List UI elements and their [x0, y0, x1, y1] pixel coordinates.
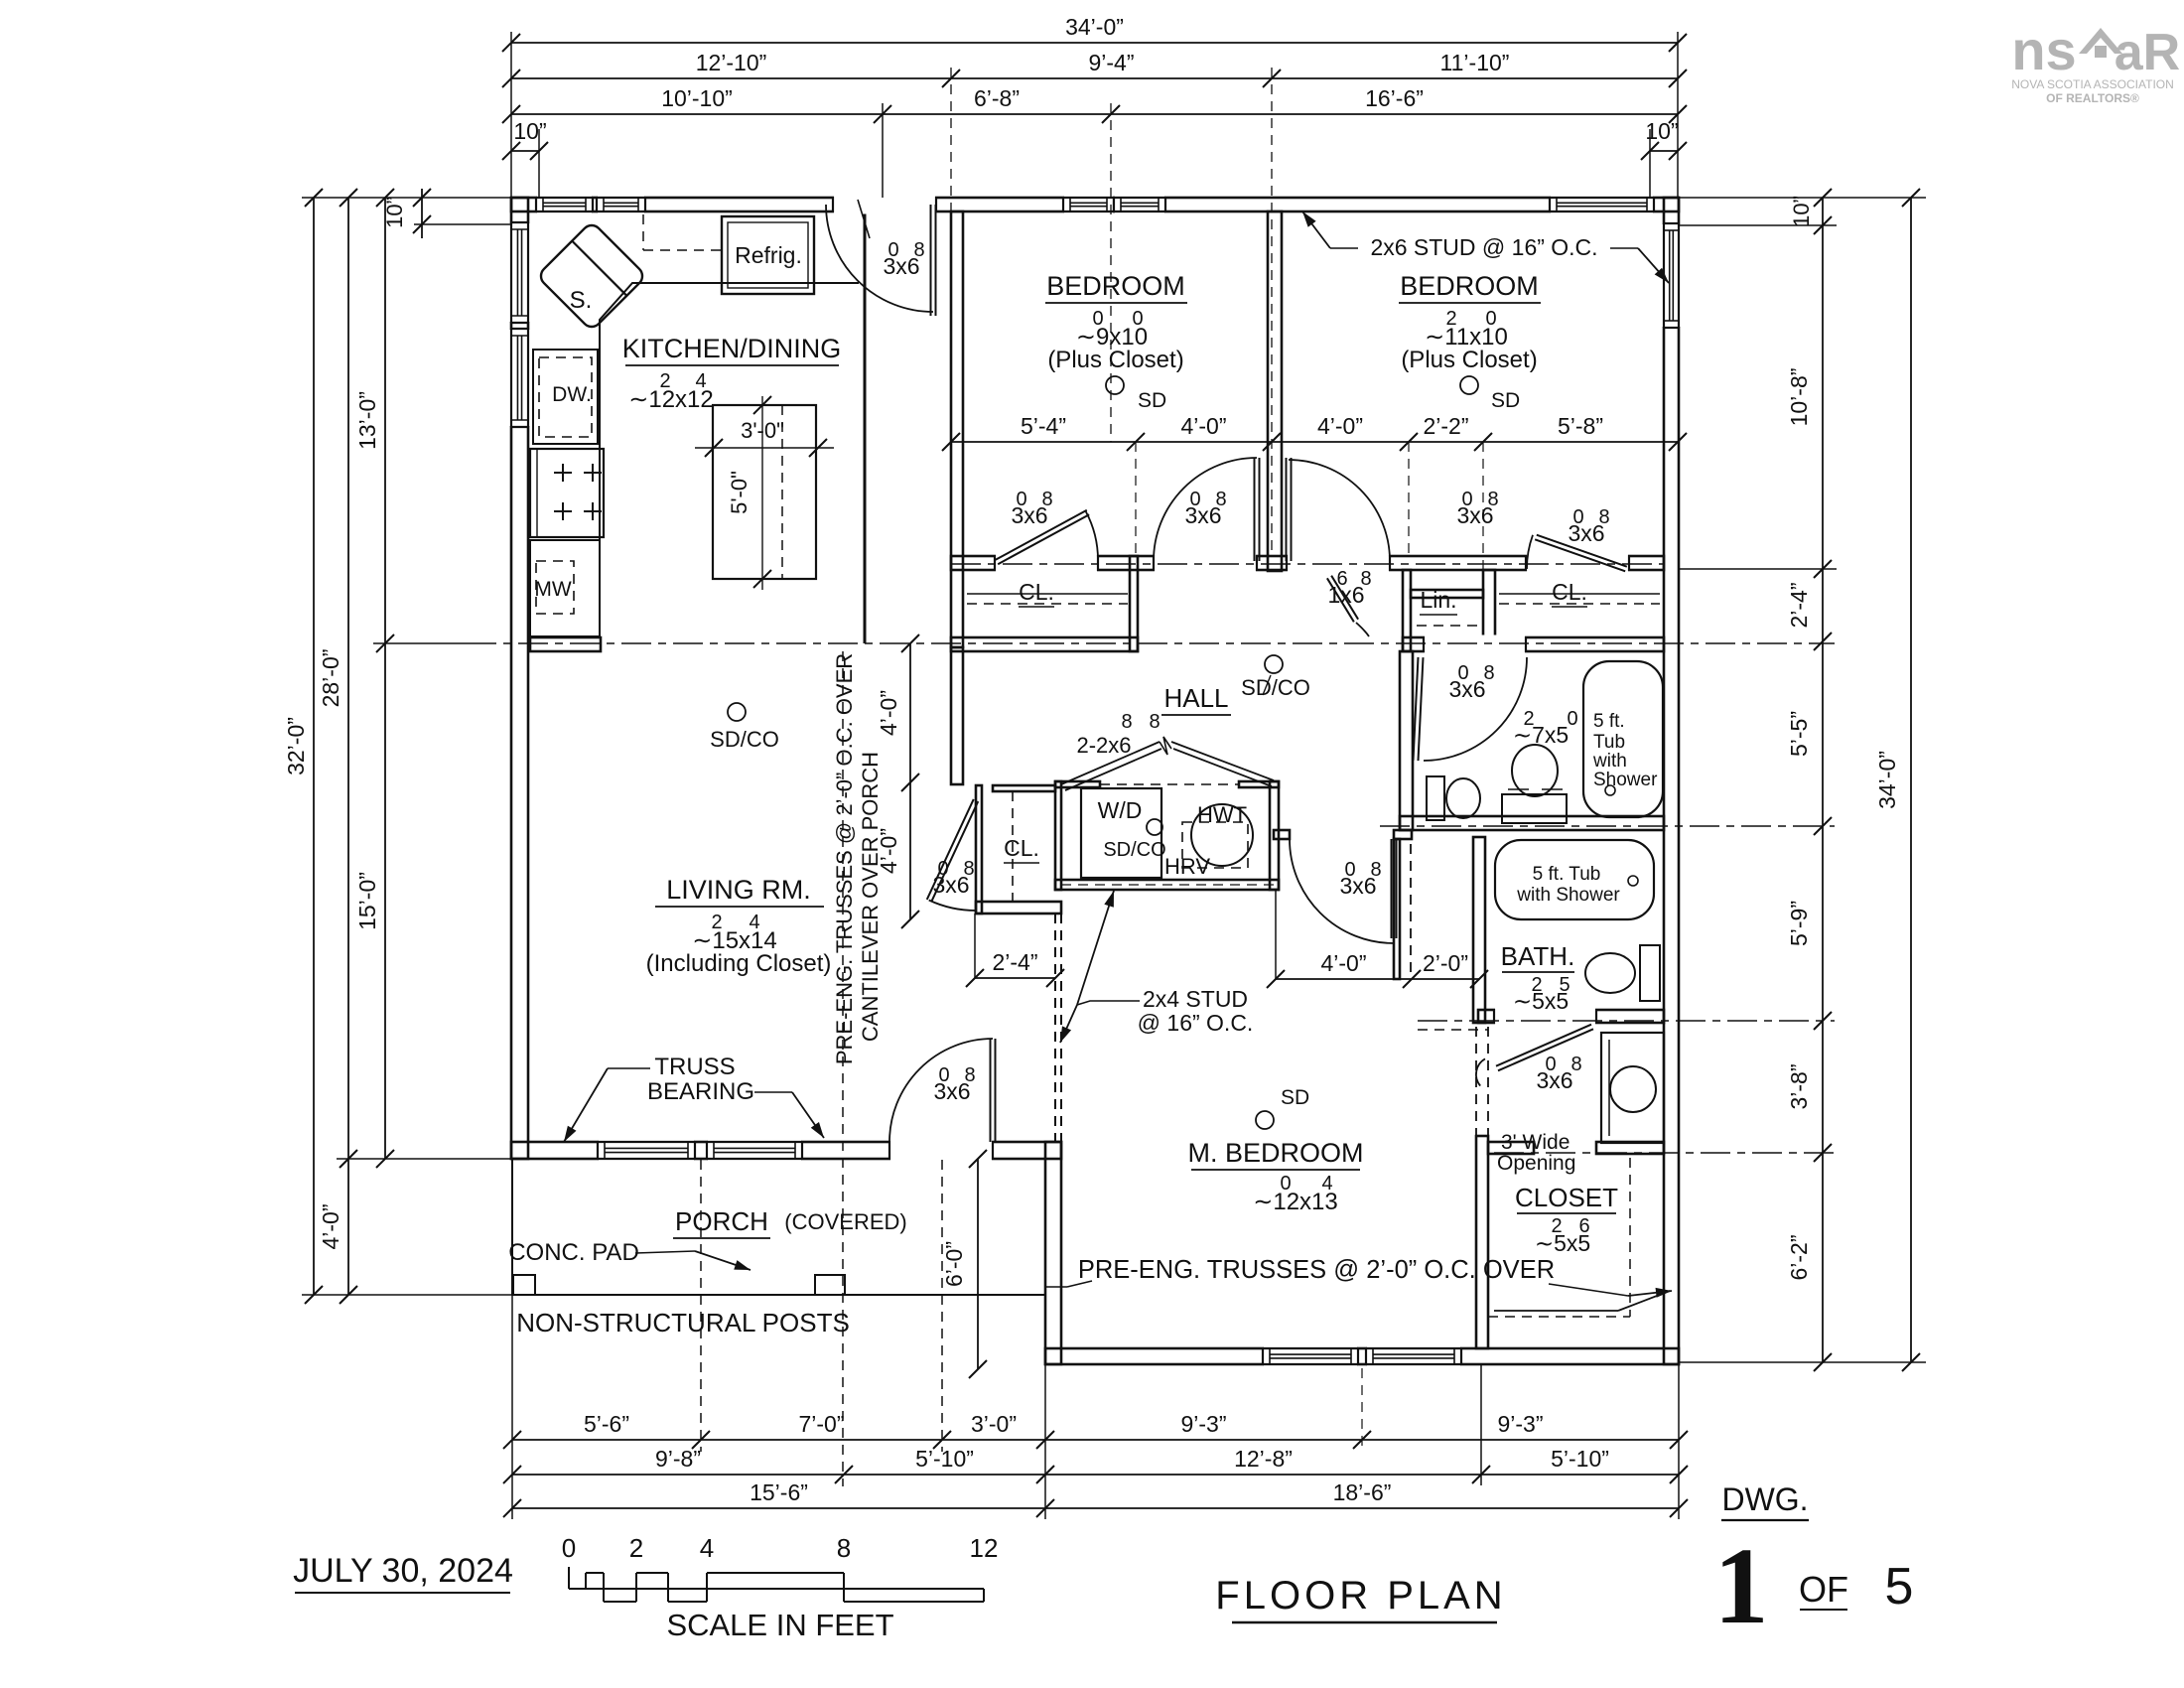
svg-text:ns: ns	[2011, 19, 2076, 81]
concrete pad right	[815, 1275, 845, 1295]
svg-text:4’-0”: 4’-0”	[1317, 413, 1363, 439]
svg-text:∼5x5: ∼5x5	[1513, 988, 1569, 1014]
closet band centerline	[951, 563, 1664, 565]
svg-text:NOVA SCOTIA ASSOCIATION: NOVA SCOTIA ASSOCIATION	[2011, 77, 2174, 91]
svg-text:3’-8”: 3’-8”	[1786, 1063, 1812, 1109]
svg-text:8: 8	[837, 1533, 851, 1563]
bath split centerline	[1380, 825, 1835, 827]
hall 4-0 / 2-0 dims	[1276, 978, 1479, 980]
kitchen counter edge	[600, 283, 859, 636]
svg-text:1x6: 1x6	[1327, 582, 1364, 608]
svg-text:BATH.: BATH.	[1501, 941, 1575, 971]
svg-text:0: 0	[562, 1533, 576, 1563]
svg-text:CANTILEVER OVER PORCH: CANTILEVER OVER PORCH	[858, 752, 883, 1042]
svg-text:12’-8”: 12’-8”	[1234, 1446, 1293, 1472]
svg-text:(Plus Closet): (Plus Closet)	[1401, 347, 1537, 373]
bottom exterior wall	[1045, 1348, 1679, 1364]
svg-text:JULY 30, 2024: JULY 30, 2024	[293, 1552, 513, 1590]
svg-text:18’-6”: 18’-6”	[1333, 1479, 1392, 1505]
bedroom closet rod dashes	[967, 593, 1128, 595]
cantilever line (vertical dashed)	[842, 651, 844, 1486]
bath2 west wall	[1473, 837, 1485, 1023]
HWT	[1191, 804, 1253, 866]
svg-text:BEDROOM: BEDROOM	[1400, 271, 1539, 301]
svg-text:9’-3”: 9’-3”	[1497, 1411, 1543, 1437]
svg-text:3x6: 3x6	[1011, 502, 1047, 528]
svg-text:12’-10”: 12’-10”	[696, 50, 767, 75]
svg-text:HRV: HRV	[1164, 854, 1210, 879]
svg-text:OF: OF	[1799, 1569, 1848, 1610]
svg-text:5’-4”: 5’-4”	[1021, 413, 1066, 439]
svg-text:2’-2”: 2’-2”	[1423, 413, 1468, 439]
dishwasher DW	[533, 350, 598, 444]
svg-text:3'-0": 3'-0"	[741, 418, 784, 443]
microwave MW	[530, 540, 600, 636]
svg-text:34’-0”: 34’-0”	[1874, 751, 1900, 809]
window bedroom1 top	[1064, 196, 1113, 214]
closet rod/shelf	[1629, 1158, 1631, 1317]
lin closet inner	[1417, 625, 1477, 627]
left dim chain	[313, 198, 315, 1295]
svg-text:15’-0”: 15’-0”	[354, 872, 380, 930]
svg-text:∼7x5: ∼7x5	[1513, 722, 1569, 748]
svg-text:Opening: Opening	[1497, 1152, 1575, 1175]
top dims	[511, 42, 1678, 44]
top extension lines	[510, 32, 512, 198]
master bedroom door	[1391, 839, 1393, 938]
svg-text:W/D: W/D	[1098, 797, 1143, 823]
svg-text:2’-4”: 2’-4”	[1786, 582, 1812, 628]
svg-text:SD/CO: SD/CO	[1103, 839, 1165, 861]
svg-text:12: 12	[970, 1533, 999, 1563]
svg-text:5'-0": 5'-0"	[727, 471, 751, 514]
svg-text:8: 8	[1149, 711, 1160, 733]
island dims	[761, 396, 763, 590]
svg-text:3x6: 3x6	[932, 872, 969, 898]
kitchen counter-end wall	[530, 637, 601, 651]
porch dim extension dashed	[941, 1160, 943, 1452]
svg-text:9’-4”: 9’-4”	[1088, 50, 1134, 75]
hall 2-4 dim	[975, 977, 1055, 979]
svg-text:MW: MW	[534, 578, 571, 601]
2x4 stud wall living/master (dashed)	[1054, 914, 1056, 1142]
laundry SD/CO	[1147, 819, 1162, 835]
svg-text:∼5x5: ∼5x5	[1535, 1230, 1590, 1256]
svg-text:Tub: Tub	[1593, 732, 1625, 753]
svg-text:4’-0”: 4’-0”	[876, 690, 901, 736]
svg-text:S.: S.	[570, 287, 593, 314]
svg-text:SD/CO: SD/CO	[710, 727, 779, 752]
front door opening (porch)	[890, 1140, 992, 1162]
svg-text:NON-STRUCTURAL POSTS: NON-STRUCTURAL POSTS	[516, 1308, 850, 1337]
bottom dim rows	[512, 1439, 1679, 1441]
svg-text:CLOSET: CLOSET	[1515, 1183, 1618, 1212]
svg-text:10”: 10”	[1789, 196, 1814, 227]
living closet door (angled)	[931, 801, 978, 902]
vanity/closet divider	[1488, 1142, 1534, 1154]
svg-text:(Including Closet): (Including Closet)	[646, 950, 832, 977]
bath1 door	[1425, 635, 1525, 654]
svg-text:Refrig.: Refrig.	[735, 242, 802, 268]
interior wall: closet band bottom / hall north	[951, 637, 1138, 651]
svg-text:3x6: 3x6	[883, 253, 919, 279]
svg-text:5: 5	[1885, 1558, 1914, 1616]
truss bearing centerline	[467, 642, 1835, 644]
closet zone centerline	[1494, 1152, 1835, 1154]
svg-text:5 ft.: 5 ft.	[1593, 711, 1625, 732]
svg-text:BEDROOM: BEDROOM	[1046, 271, 1185, 301]
bath1 pedestal sink	[1512, 745, 1558, 796]
svg-text:16’-6”: 16’-6”	[1365, 85, 1424, 111]
corner sink S.	[537, 221, 646, 331]
kitchen island	[713, 405, 816, 579]
svg-text:3x6: 3x6	[1568, 520, 1604, 546]
svg-text:3x6: 3x6	[933, 1078, 970, 1104]
svg-text:(Plus Closet): (Plus Closet)	[1047, 347, 1183, 373]
svg-text:3x6: 3x6	[1184, 502, 1221, 528]
bottom extensions	[511, 1295, 513, 1519]
window kitchen top 1	[537, 196, 592, 214]
svg-text:13’-0”: 13’-0”	[354, 391, 380, 450]
svg-text:LIVING RM.: LIVING RM.	[666, 875, 811, 905]
hall vestibule walls	[1274, 830, 1290, 839]
svg-text:PRE-ENG. TRUSSES @ 2’-0” O.C.: PRE-ENG. TRUSSES @ 2’-0” O.C. OVER	[832, 653, 857, 1064]
entry door opening (top)	[834, 196, 935, 214]
bedroom1 door opening	[996, 554, 1097, 573]
svg-text:10’-10”: 10’-10”	[661, 85, 733, 111]
svg-text:DW.: DW.	[552, 383, 592, 406]
svg-text:aR: aR	[2115, 24, 2180, 81]
svg-text:PORCH: PORCH	[675, 1206, 768, 1236]
svg-text:1: 1	[1714, 1525, 1769, 1646]
svg-text:M. BEDROOM: M. BEDROOM	[1187, 1138, 1363, 1168]
svg-text:TRUSS: TRUSS	[654, 1054, 735, 1080]
svg-text:CL.: CL.	[1019, 579, 1054, 605]
refrigerator	[722, 216, 814, 294]
hall SD/CO	[1265, 655, 1283, 673]
bath1 toilet	[1427, 776, 1444, 820]
svg-text:10”: 10”	[513, 118, 546, 144]
svg-text:4’-0”: 4’-0”	[1320, 950, 1366, 976]
hall vertical dims 4-0 x2	[909, 643, 911, 919]
svg-text:CONC. PAD: CONC. PAD	[508, 1239, 639, 1266]
laundry room walls	[1055, 781, 1061, 890]
porch outline	[511, 1159, 513, 1295]
stove	[530, 449, 604, 537]
svg-text:SD: SD	[1281, 1086, 1309, 1109]
svg-text:(COVERED): (COVERED)	[784, 1209, 906, 1234]
svg-text:∼12x12: ∼12x12	[628, 386, 714, 413]
upper cabinet dashed	[642, 214, 644, 250]
closet side wall hall/linen	[1403, 570, 1411, 651]
windows living front	[599, 1140, 694, 1162]
svg-text:BEARING: BEARING	[647, 1078, 754, 1105]
window kitchen top 2	[598, 196, 644, 214]
bedroom2 closet door (angled)	[1527, 554, 1628, 573]
svg-text:5’-10”: 5’-10”	[1551, 1446, 1609, 1472]
svg-text:6’-2”: 6’-2”	[1786, 1234, 1812, 1280]
svg-text:@ 16” O.C.: @ 16” O.C.	[1138, 1010, 1254, 1036]
porch 6-0 dim	[977, 1159, 979, 1369]
svg-text:5’-5”: 5’-5”	[1786, 711, 1812, 757]
svg-text:2x6 STUD @ 16” O.C.: 2x6 STUD @ 16” O.C.	[1370, 234, 1597, 260]
svg-text:9’-3”: 9’-3”	[1180, 1411, 1226, 1437]
svg-text:DWG.: DWG.	[1721, 1481, 1808, 1517]
svg-text:SD: SD	[1138, 389, 1166, 412]
bath1 west wall	[1400, 651, 1413, 830]
left extensions	[302, 197, 511, 199]
windows bottom wall	[1264, 1346, 1357, 1367]
svg-text:32’-0”: 32’-0”	[283, 717, 309, 775]
linen closet door 1x6	[1327, 578, 1354, 622]
interior wall: bedrooms closet band top	[951, 556, 1664, 570]
concrete pad left	[513, 1275, 535, 1295]
svg-text:6’-8”: 6’-8”	[974, 85, 1020, 111]
svg-text:FLOOR PLAN: FLOOR PLAN	[1215, 1574, 1506, 1618]
svg-text:28’-0”: 28’-0”	[318, 649, 343, 708]
bedroom interior dim row	[951, 441, 1678, 443]
svg-text:Lin.: Lin.	[1420, 587, 1456, 613]
bath1 south wall	[1400, 816, 1664, 830]
svg-text:4: 4	[700, 1533, 714, 1563]
svg-text:11’-10”: 11’-10”	[1440, 50, 1510, 75]
svg-text:SD/CO: SD/CO	[1241, 675, 1310, 700]
svg-text:5’-10”: 5’-10”	[915, 1446, 974, 1472]
window bedroom2 top	[1551, 196, 1653, 214]
left exterior wall	[511, 198, 528, 1159]
vanity room door	[1495, 1008, 1595, 1026]
vanity counter	[1601, 1033, 1664, 1143]
svg-text:15’-6”: 15’-6”	[750, 1479, 808, 1505]
svg-text:3' Wide: 3' Wide	[1501, 1131, 1570, 1154]
svg-text:CL.: CL.	[1552, 579, 1587, 605]
right dim chain	[1822, 198, 1824, 1362]
closet side wall bed1	[1130, 556, 1138, 651]
2-2x6 header chevron	[1061, 742, 1274, 784]
hall west wall below closet	[951, 647, 963, 784]
interior wall: bedroom1/bedroom2 divider	[1268, 211, 1282, 571]
entry door	[930, 205, 932, 316]
svg-text:4’-0”: 4’-0”	[1180, 413, 1226, 439]
svg-text:PRE-ENG. TRUSSES @ 2’-0” O.C.: PRE-ENG. TRUSSES @ 2’-0” O.C. OVER	[1078, 1256, 1555, 1284]
svg-text:CL.: CL.	[1004, 835, 1039, 861]
svg-text:with: with	[1592, 751, 1627, 772]
svg-text:3x6: 3x6	[1339, 873, 1376, 899]
svg-text:2-2x6: 2-2x6	[1076, 733, 1131, 758]
svg-text:5 ft. Tub: 5 ft. Tub	[1533, 864, 1601, 885]
bedroom1 closet door (angled)	[998, 514, 1089, 564]
svg-text:3’-0”: 3’-0”	[971, 1411, 1017, 1437]
linen closet top wall	[1411, 590, 1483, 598]
svg-text:Shower: Shower	[1593, 770, 1658, 790]
svg-text:with Shower: with Shower	[1516, 885, 1620, 906]
svg-text:10’-8”: 10’-8”	[1786, 368, 1812, 427]
scale bar	[569, 1588, 984, 1590]
right extensions	[1679, 197, 1926, 199]
hall door to bedroom1	[1155, 554, 1256, 573]
svg-text:5’-6”: 5’-6”	[584, 1411, 629, 1437]
svg-text:3x6: 3x6	[1448, 676, 1485, 702]
svg-text:3x6: 3x6	[1536, 1067, 1572, 1093]
svg-text:2’-0”: 2’-0”	[1423, 950, 1468, 976]
svg-text:2: 2	[629, 1533, 643, 1563]
bath2 tub	[1495, 840, 1654, 919]
svg-text:8: 8	[1121, 711, 1132, 733]
svg-text:10”: 10”	[382, 197, 407, 228]
svg-text:SD: SD	[1491, 389, 1520, 412]
svg-text:34’-0”: 34’-0”	[1065, 14, 1124, 40]
svg-text:6’-0”: 6’-0”	[941, 1241, 967, 1287]
HRV dashed	[1182, 822, 1248, 868]
interior wall: kitchen/bedroom1	[951, 211, 963, 647]
top exterior wall	[511, 198, 1679, 211]
svg-text:SCALE IN FEET: SCALE IN FEET	[666, 1608, 893, 1642]
washer/dryer	[1081, 788, 1161, 878]
bath2 toilet	[1640, 945, 1660, 1001]
closet column west wall	[1475, 1027, 1477, 1136]
svg-text:3x6: 3x6	[1456, 502, 1493, 528]
svg-text:∼12x13: ∼12x13	[1253, 1189, 1338, 1215]
living room closet walls	[976, 785, 982, 914]
svg-text:OF REALTORS®: OF REALTORS®	[2046, 91, 2139, 105]
svg-text:5’-8”: 5’-8”	[1558, 413, 1603, 439]
vanity zone centerline	[1418, 1020, 1835, 1022]
right exterior wall	[1664, 198, 1679, 1364]
svg-text:2x4 STUD: 2x4 STUD	[1143, 986, 1248, 1012]
front door	[990, 1039, 992, 1142]
svg-text:7’-0”: 7’-0”	[798, 1411, 844, 1437]
living SD/CO	[728, 703, 746, 721]
svg-text:4’-0”: 4’-0”	[876, 828, 901, 874]
kitchen/entry wall	[864, 205, 867, 643]
svg-text:4’-0”: 4’-0”	[318, 1203, 343, 1249]
porch post centerline	[700, 1160, 702, 1452]
hall door to bedroom2	[1288, 554, 1389, 573]
svg-text:HWT: HWT	[1197, 802, 1247, 827]
bath2 south wall	[1478, 1010, 1664, 1023]
bath1 tub	[1583, 661, 1663, 817]
svg-text:HALL: HALL	[1163, 683, 1228, 713]
master-bedroom-wing west wall	[1045, 1142, 1061, 1364]
windows left wall	[509, 223, 531, 322]
linen/bed2 closet divider	[1483, 570, 1495, 651]
NSAR logo	[2011, 19, 2180, 105]
svg-text:KITCHEN/DINING: KITCHEN/DINING	[622, 334, 842, 363]
svg-text:9’-8”: 9’-8”	[655, 1446, 701, 1472]
svg-text:2’-4”: 2’-4”	[992, 949, 1037, 975]
living room front (south) wall	[511, 1142, 1061, 1159]
window right wall bedroom2	[1662, 224, 1682, 327]
svg-text:5’-9”: 5’-9”	[1786, 901, 1812, 946]
